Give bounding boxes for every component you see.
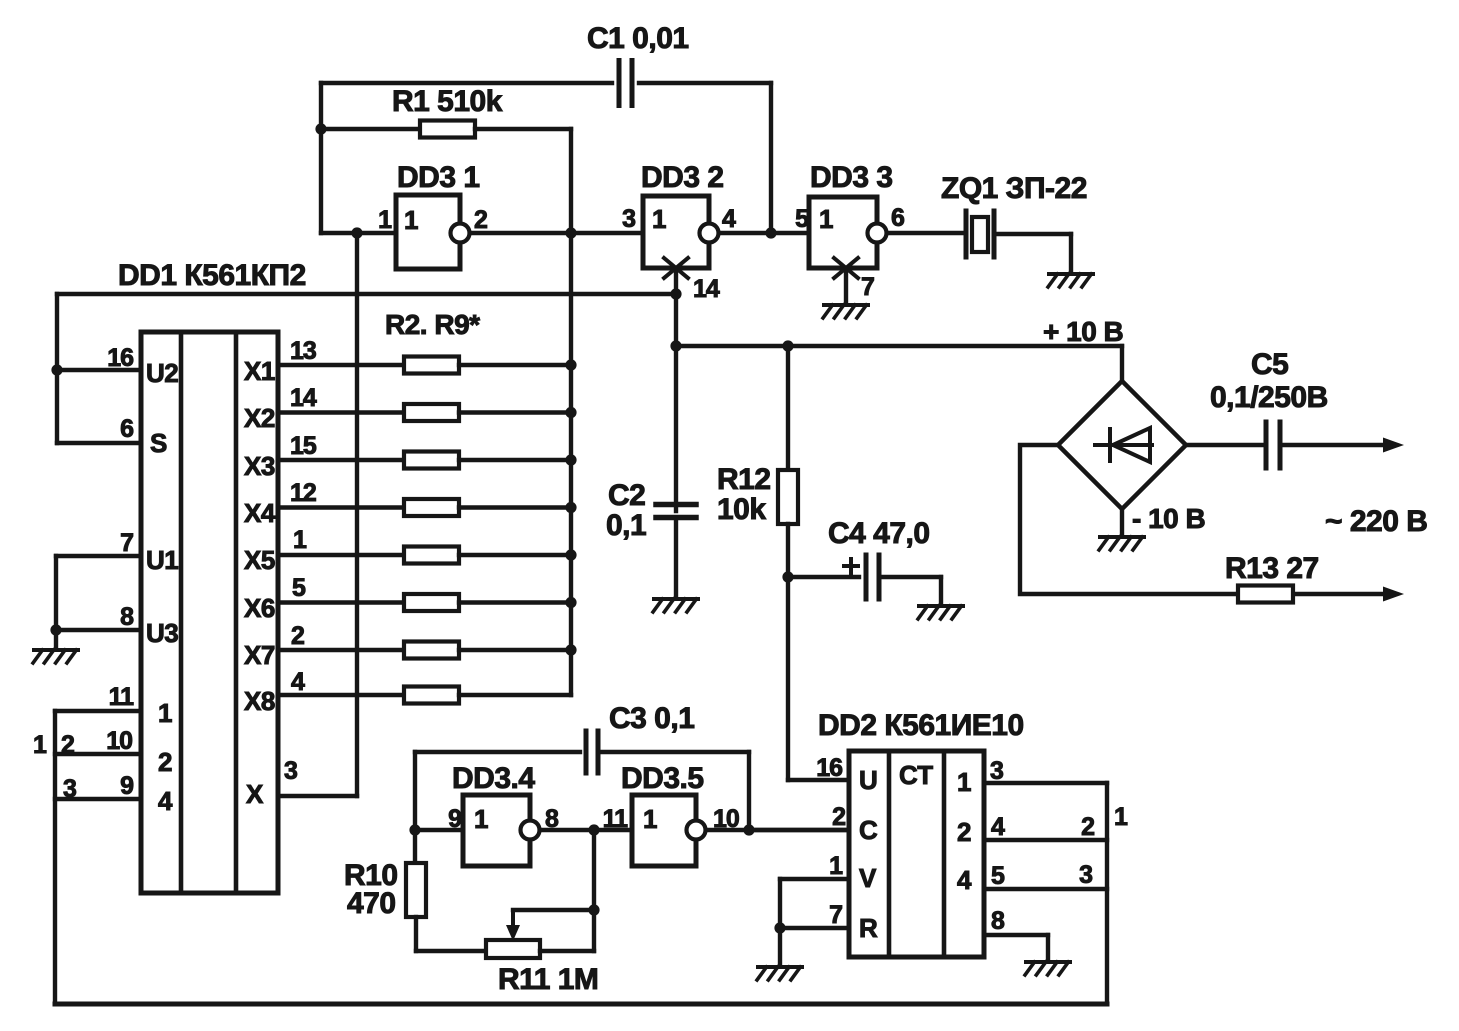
svg-text:9: 9: [448, 805, 461, 833]
svg-text:6: 6: [120, 415, 133, 443]
svg-text:10: 10: [106, 727, 132, 755]
svg-text:6: 6: [891, 204, 904, 232]
svg-text:8: 8: [120, 603, 134, 631]
svg-text:5: 5: [292, 574, 306, 602]
svg-text:U1: U1: [146, 545, 178, 575]
svg-text:16: 16: [107, 344, 133, 372]
svg-text:- 10 В: - 10 В: [1132, 503, 1205, 534]
svg-text:DD3.5: DD3.5: [621, 762, 704, 795]
svg-text:3: 3: [63, 775, 76, 803]
svg-text:3: 3: [990, 757, 1003, 785]
svg-text:2: 2: [957, 817, 971, 847]
svg-text:1: 1: [829, 852, 843, 880]
svg-text:14: 14: [693, 275, 720, 303]
svg-text:X6: X6: [244, 593, 275, 623]
svg-text:2: 2: [291, 622, 304, 650]
svg-text:3: 3: [622, 205, 635, 233]
svg-text:16: 16: [816, 754, 842, 782]
svg-text:X2: X2: [244, 403, 275, 433]
svg-text:DD2 К561ИЕ10: DD2 К561ИЕ10: [818, 709, 1024, 742]
svg-text:1: 1: [652, 204, 666, 234]
svg-text:4: 4: [722, 205, 736, 233]
svg-text:R2. R9*: R2. R9*: [385, 309, 480, 340]
svg-text:U3: U3: [146, 618, 178, 648]
svg-text:1: 1: [33, 731, 47, 759]
svg-text:DD1 К561КП2: DD1 К561КП2: [118, 259, 306, 292]
svg-text:1: 1: [293, 526, 307, 554]
svg-text:4: 4: [957, 865, 972, 895]
svg-text:1: 1: [404, 205, 418, 235]
svg-text:14: 14: [290, 384, 317, 412]
svg-text:1: 1: [819, 204, 833, 234]
svg-text:8: 8: [991, 907, 1005, 935]
svg-text:5: 5: [991, 862, 1005, 890]
svg-text:R12: R12: [717, 463, 771, 496]
svg-text:C1 0,01: C1 0,01: [587, 22, 689, 55]
svg-text:X5: X5: [244, 545, 275, 575]
svg-text:C3 0,1: C3 0,1: [609, 702, 694, 735]
svg-text:C4 47,0: C4 47,0: [828, 517, 930, 550]
svg-text:11: 11: [109, 683, 135, 711]
svg-text:1: 1: [1114, 803, 1128, 831]
svg-text:3: 3: [284, 757, 297, 785]
svg-text:U2: U2: [146, 358, 178, 388]
svg-text:2: 2: [832, 803, 845, 831]
svg-text:DD3.4: DD3.4: [452, 762, 535, 795]
svg-text:R: R: [859, 913, 878, 943]
svg-text:1: 1: [957, 767, 971, 797]
svg-text:X8: X8: [244, 686, 275, 716]
svg-text:7: 7: [120, 529, 133, 557]
svg-text:DD3 1: DD3 1: [397, 161, 480, 194]
svg-text:9: 9: [120, 772, 133, 800]
svg-text:5: 5: [795, 205, 809, 233]
svg-text:X4: X4: [244, 498, 276, 528]
svg-text:10k: 10k: [717, 493, 766, 526]
svg-text:4: 4: [991, 813, 1005, 841]
svg-text:U: U: [859, 765, 877, 795]
svg-text:470: 470: [347, 887, 396, 920]
svg-text:CT: CT: [899, 760, 933, 790]
svg-text:X: X: [246, 779, 264, 809]
svg-text:4: 4: [158, 786, 173, 816]
svg-text:DD3 2: DD3 2: [641, 161, 724, 194]
svg-text:1: 1: [378, 206, 392, 234]
svg-text:2: 2: [474, 206, 487, 234]
svg-text:S: S: [150, 428, 167, 458]
svg-text:12: 12: [290, 479, 316, 507]
svg-text:~ 220 В: ~ 220 В: [1325, 505, 1427, 538]
svg-text:1: 1: [158, 698, 172, 728]
svg-text:R11 1M: R11 1M: [498, 963, 598, 996]
svg-text:C: C: [859, 815, 878, 845]
svg-text:2: 2: [158, 747, 172, 777]
svg-text:2: 2: [61, 731, 74, 759]
svg-text:0,1: 0,1: [606, 509, 646, 542]
svg-text:1: 1: [643, 804, 657, 834]
svg-text:V: V: [859, 863, 877, 893]
svg-text:1: 1: [474, 804, 488, 834]
svg-text:X3: X3: [244, 451, 275, 481]
svg-text:4: 4: [291, 668, 305, 696]
svg-text:X7: X7: [244, 640, 275, 670]
svg-text:15: 15: [290, 432, 317, 460]
svg-text:+ 10 В: + 10 В: [1043, 316, 1123, 347]
svg-text:DD3 3: DD3 3: [810, 161, 893, 194]
svg-text:7: 7: [861, 273, 874, 301]
svg-text:8: 8: [545, 805, 559, 833]
svg-text:3: 3: [1079, 861, 1092, 889]
svg-text:R1 510k: R1 510k: [392, 85, 503, 118]
svg-text:10: 10: [713, 805, 739, 833]
svg-text:C2: C2: [608, 479, 645, 512]
svg-text:11: 11: [603, 805, 629, 833]
svg-text:13: 13: [290, 337, 316, 365]
svg-text:ZQ1 ЗП-22: ZQ1 ЗП-22: [941, 172, 1087, 205]
svg-text:R13 27: R13 27: [1225, 552, 1319, 585]
svg-text:0,1/250В: 0,1/250В: [1210, 381, 1328, 414]
svg-text:X1: X1: [244, 356, 275, 386]
svg-text:C5: C5: [1251, 348, 1288, 381]
svg-text:7: 7: [829, 901, 842, 929]
svg-text:2: 2: [1081, 813, 1094, 841]
